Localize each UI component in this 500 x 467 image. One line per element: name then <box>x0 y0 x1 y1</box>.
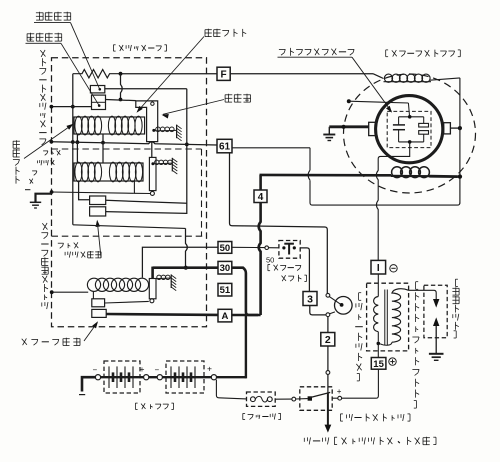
coil2 left lead down to contact A <box>79 181 90 200</box>
charge light lamp <box>335 297 353 315</box>
wire fuse to main switch <box>275 398 292 400</box>
cutout contact A box <box>90 196 106 205</box>
starter coil left lead to contact C <box>92 291 94 299</box>
label battery <box>135 402 137 404</box>
right riser wire <box>459 78 461 204</box>
thick wire battery plus to riser <box>217 376 246 378</box>
label ignition coil (vertical) <box>416 281 419 283</box>
label starter contact + leader arrow <box>22 339 27 345</box>
starter button (dashed box, plunger) <box>279 241 300 259</box>
starter dynamo dashed housing circle <box>344 74 476 193</box>
wire contact C to pivot <box>105 301 149 303</box>
svg-text:+: + <box>337 387 342 396</box>
wire terminal 2 to main switch <box>327 346 329 371</box>
terminal 2 <box>321 333 335 347</box>
svg-text:−: − <box>93 366 98 375</box>
wire resistor junction down to low-speed lead (hop) <box>121 74 123 100</box>
svg-text:+: + <box>140 364 145 374</box>
wire 61 to dynamo <box>232 147 310 149</box>
ignition primary winding <box>374 297 379 332</box>
relay1 spring + anchor <box>152 129 155 132</box>
label current coil + leader arrow <box>205 29 212 31</box>
starter armature column + pivot <box>149 279 156 299</box>
label starter magnetic switch (vertical) <box>42 223 47 229</box>
terminal 50 <box>218 242 232 254</box>
wire case ground tap to low-speed contact <box>51 106 91 108</box>
label (starter dynamo) <box>386 49 388 51</box>
ignition core <box>384 290 386 346</box>
label voltage coil (vertical) + leader <box>13 140 20 142</box>
wire battery to fuse <box>216 380 246 399</box>
thick riser (terminal 4 wire) with hops <box>259 203 261 316</box>
dynamo ground symbol <box>328 127 330 134</box>
wire starter button to terminal 3 <box>300 248 309 292</box>
dynamo ground wire (thick) + dot <box>329 125 368 128</box>
spark plug dashed box <box>424 285 447 338</box>
label (regulator) <box>113 44 115 46</box>
condenser (capacitor) <box>398 117 400 125</box>
relay1 coil leads to 61 wire <box>76 134 78 142</box>
wire field coil to right riser <box>430 78 460 80</box>
label movable piece + leader arrow <box>225 94 232 96</box>
spark plug ground <box>429 353 444 355</box>
terminal 15 <box>371 358 386 370</box>
voltage/current relay coil (regulator coil) <box>74 117 145 134</box>
label high-speed contact + leader <box>36 12 43 14</box>
breaker node bars <box>399 116 424 118</box>
terminal 51 <box>218 283 232 296</box>
terminal F <box>217 67 230 80</box>
label main switch <box>340 413 343 415</box>
svg-text:61: 61 <box>219 142 231 153</box>
starter-switch section dashed divider <box>52 235 207 237</box>
regulator armature (movable piece) <box>136 101 158 142</box>
starter coil case lead <box>52 291 88 293</box>
wire I to primary <box>377 274 379 297</box>
svg-text:I: I <box>377 263 380 274</box>
label low-speed contact + leader <box>27 33 34 35</box>
dynamo shunt field coil (top) <box>384 74 392 82</box>
wire lamp contact to terminal 2 <box>327 317 329 333</box>
svg-text:15: 15 <box>373 359 384 370</box>
svg-text:50: 50 <box>220 243 231 254</box>
relay3 spring + anchor <box>157 275 161 279</box>
svg-text:F: F <box>221 69 227 80</box>
starter relay armature thick link to 30 wire <box>151 267 154 279</box>
wire high-speed contact to right riser <box>105 88 187 90</box>
right brush wire <box>450 127 459 129</box>
starter contact D box <box>92 309 106 317</box>
cutout coil top leads <box>76 142 78 163</box>
starter contact C box <box>92 299 105 307</box>
regulator dashed enclosure box <box>52 58 207 327</box>
charge light contacts <box>326 293 330 297</box>
relay2 spring + anchor <box>151 162 154 165</box>
battery 1 (dashed box, cells) <box>95 375 100 380</box>
wire contact A to riser <box>106 200 187 203</box>
svg-text:2: 2 <box>325 334 331 346</box>
terminal 3 <box>303 292 317 306</box>
terminal I <box>371 260 386 274</box>
label voltage regulator (vertical) <box>40 50 45 56</box>
thick wire 30 to starter armature <box>153 266 218 269</box>
high-speed contact box <box>90 86 104 93</box>
main switch (dashed box, blade) <box>300 387 332 411</box>
label load (headlight etc) <box>303 438 305 442</box>
riser hop over thick wire <box>308 170 310 180</box>
ignition secondary winding <box>392 289 409 342</box>
lower riser to 30 wire (hop over 50 wire) <box>186 228 188 267</box>
battery minus stub <box>82 377 95 391</box>
thick wire 30 right to battery riser <box>232 268 258 315</box>
cutout-relay section dashed divider <box>52 148 202 150</box>
cutout-relay inner dashed right edge <box>201 149 203 236</box>
label fuse <box>243 412 245 414</box>
ground wire into case + pivot connection <box>52 192 134 193</box>
wire to terminal 61 (with hop over relay link) <box>51 142 217 145</box>
terminal 30 <box>218 261 232 274</box>
terminal A <box>218 309 232 322</box>
dynamo series coil (bottom, thick) <box>392 167 403 178</box>
thick wire contact D to terminal A <box>106 313 218 316</box>
brushes <box>369 122 376 135</box>
svg-text:−: − <box>155 366 160 375</box>
wire 61 down to charge light <box>230 153 328 293</box>
breaker points <box>423 117 425 123</box>
svg-text:4: 4 <box>258 192 264 203</box>
50 wire from starter coil up and to terminal 50 <box>142 247 218 277</box>
battery 2 (dashed box, cells) <box>166 361 204 393</box>
label cutout relay (diagonal) <box>43 150 48 152</box>
wire terminal 3 to lamp contact <box>310 306 326 315</box>
case ground symbol (regulator) <box>36 194 52 202</box>
plus symbol at 15 <box>389 358 396 365</box>
wire secondary to spark plug <box>409 290 437 299</box>
wire 50 to starter button <box>232 246 265 248</box>
starter switch coil (big loops) <box>87 278 100 291</box>
bottom return wire <box>310 148 460 205</box>
svg-text:51: 51 <box>220 285 231 296</box>
label charge light (vertical) <box>359 292 362 294</box>
svg-text:3: 3 <box>307 293 313 305</box>
svg-text:A: A <box>221 311 228 322</box>
fuse (dashed box) <box>247 392 276 406</box>
relay1-relay2 armature link <box>151 142 153 158</box>
cutout relay coil <box>74 163 143 181</box>
cutout contact B box <box>90 207 106 216</box>
wire F to field coil <box>230 73 373 75</box>
svg-text:+: + <box>207 364 212 374</box>
label spark plug (vertical) <box>455 278 458 280</box>
terminal 61 <box>217 139 232 153</box>
minus symbol at I <box>390 265 397 272</box>
svg-text:50: 50 <box>266 256 274 265</box>
wire low-speed contact to armature flange <box>106 100 136 101</box>
svg-text:30: 30 <box>220 263 231 274</box>
terminal 4 <box>254 190 267 203</box>
spark gap electrodes <box>433 299 439 308</box>
riser wire (contact bus) down right side <box>106 89 187 214</box>
armature output to terminal I (hops) <box>376 142 409 261</box>
thick wire to dynamo series coil <box>260 174 392 177</box>
wire main switch to 15 riser <box>332 397 338 399</box>
thick wire A to riser junction <box>232 314 261 317</box>
cutout relay armature column + pivot <box>149 157 156 190</box>
frame connection dots + wire to breaker plate <box>347 99 351 103</box>
low-speed contact box <box>92 95 106 109</box>
ignition coil dashed box <box>367 283 409 351</box>
wire left bus (resistor left, down to cutout slope) <box>72 74 74 225</box>
wire resistor to terminal F <box>121 73 218 75</box>
battery riser down <box>245 314 247 378</box>
load arrow down <box>327 393 329 426</box>
label contact breaker + leader arrow <box>279 48 285 50</box>
label cutout contact + leader arrow <box>58 242 64 244</box>
dynamo armature circle <box>376 96 443 163</box>
slope wire from bus to lower riser <box>73 225 186 229</box>
contact breaker dashed plate <box>387 111 431 147</box>
resistor (regulator) <box>73 70 121 78</box>
